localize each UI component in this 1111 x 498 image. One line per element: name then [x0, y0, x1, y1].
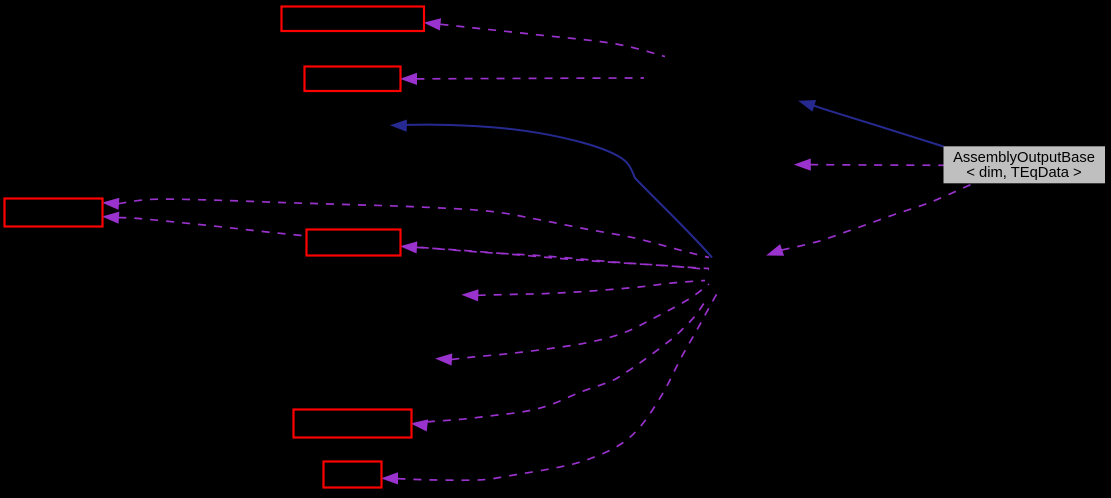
svg-text:< dim, TEqData >: < dim, TEqData >: [966, 165, 1081, 181]
edge usage gray -> nodeN3: [768, 185, 972, 256]
edge usage -> box3 lower: [104, 212, 710, 269]
edge usage -> nodeN5: [437, 284, 710, 365]
svg-text:AssemblyOutputBase: AssemblyOutputBase: [953, 150, 1095, 166]
node box2 (red, text invisible): [305, 67, 401, 92]
edge usage -> box6: [383, 294, 718, 484]
node AssemblyOutputBase< dim, TEqData > (selected, gray): [944, 146, 1106, 183]
edge inherit gray -> nodeN1: [800, 101, 944, 147]
node box5 (red, text invisible): [294, 410, 412, 438]
edge usage -> box5: [412, 297, 708, 431]
edge usage -> box2: [402, 74, 645, 85]
node box1 (red, text invisible): [282, 7, 425, 32]
edge usage -> box4: [402, 242, 710, 268]
edge usage -> box3 upper: [104, 198, 710, 257]
edge usage -> box1: [425, 19, 665, 57]
edge usage gray -> nodeN2: [795, 159, 943, 170]
edge inherit nodeN3 -> base: [391, 120, 712, 257]
node box4 (red, text invisible): [307, 230, 401, 256]
node box3 (red, text invisible): [5, 199, 103, 227]
node box6 (red, text invisible): [324, 462, 382, 488]
edge usage -> nodeN4: [463, 281, 705, 301]
